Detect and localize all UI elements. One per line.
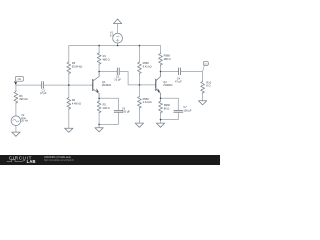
svg-text:47 µF: 47 µF <box>175 80 182 84</box>
svg-text:100 µF: 100 µF <box>183 109 192 113</box>
svg-text:100 µF: 100 µF <box>122 110 131 114</box>
svg-text:480 Ω: 480 Ω <box>164 57 171 61</box>
svg-text:390 kΩ: 390 kΩ <box>19 97 27 101</box>
svg-text:2N3904: 2N3904 <box>163 83 173 87</box>
svg-text:out: out <box>204 63 207 66</box>
svg-text:http://circuitlab.com/c/hjdc3t: http://circuitlab.com/c/hjdc3t <box>44 159 74 162</box>
svg-text:47 µF: 47 µF <box>40 91 47 95</box>
svg-text:9 V: 9 V <box>110 34 114 38</box>
svg-text:LAB: LAB <box>27 159 36 164</box>
svg-text:2.34 kΩ: 2.34 kΩ <box>143 100 152 104</box>
svg-text:55.84 kΩ: 55.84 kΩ <box>72 65 83 69</box>
svg-text:9.42 kΩ: 9.42 kΩ <box>143 65 152 69</box>
svg-text:8 Ω: 8 Ω <box>206 84 210 88</box>
svg-text:10 µF: 10 µF <box>114 77 121 81</box>
svg-text:4.48 kΩ: 4.48 kΩ <box>72 101 81 105</box>
svg-text:100 Ω: 100 Ω <box>103 106 110 110</box>
svg-text:86 Ω: 86 Ω <box>164 107 170 111</box>
svg-text:20 Hz: 20 Hz <box>21 118 28 122</box>
svg-text:C7: C7 <box>183 105 187 109</box>
svg-text:2N3904: 2N3904 <box>102 83 112 87</box>
svg-text:480 Ω: 480 Ω <box>103 57 110 61</box>
